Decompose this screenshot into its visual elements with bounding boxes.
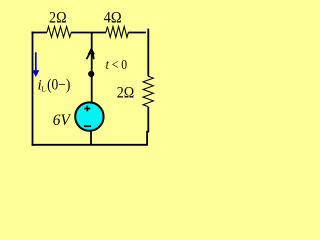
svg-text:2Ω: 2Ω: [117, 85, 135, 102]
switch arrowhead (points up, on middle branch): [88, 47, 95, 54]
minus sign inside source: [84, 125, 91, 127]
switch arrow barb right: [92, 54, 95, 59]
wire: top-left segment to R1: [33, 31, 48, 34]
current arrow iL (blue, pointing down along left rail): [35, 52, 37, 71]
plus sign inside source: [84, 106, 90, 112]
resistor R3 2ohm (right side, vertical zigzag): [143, 76, 153, 106]
svg-text:(0−): (0−): [47, 77, 70, 94]
resistor R1 2ohm (top left, horizontal zigzag): [47, 27, 71, 38]
switch contact dot: [88, 71, 94, 77]
svg-text:t < 0: t < 0: [106, 58, 127, 73]
wire: left rail: [32, 32, 34, 146]
wire: right rail lower part with jog: [147, 107, 148, 146]
resistor R2 4ohm (top right, horizontal zigzag): [106, 27, 128, 38]
switch arrow barb left: [87, 54, 90, 59]
wire: right rail upper part (with overshoot above top wire): [147, 29, 149, 77]
wire: middle branch lower (source to bottom rail): [90, 130, 92, 145]
svg-text:6V: 6V: [53, 112, 72, 129]
wire: R2 to top-right: [128, 32, 146, 34]
wire: middle branch upper (junction to source): [91, 33, 93, 104]
svg-text:L: L: [41, 85, 46, 94]
blue arrowhead: [32, 70, 39, 77]
wire: bottom rail: [32, 144, 148, 146]
voltage source V1 6V (circle): [75, 102, 103, 130]
svg-text:4Ω: 4Ω: [104, 10, 122, 27]
svg-text:2Ω: 2Ω: [49, 9, 67, 26]
wire: between R1 and R2: [71, 32, 106, 34]
